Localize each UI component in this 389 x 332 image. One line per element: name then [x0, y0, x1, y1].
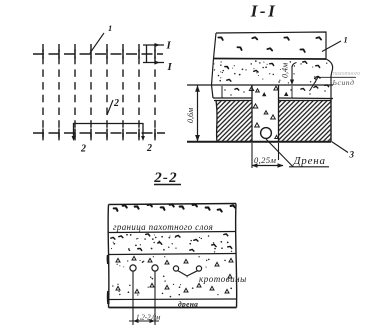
svg-text:дрена: дрена [178, 300, 198, 309]
svg-text:0,4м: 0,4м [281, 63, 290, 78]
svg-text:граница пахотного слоя: граница пахотного слоя [113, 222, 213, 232]
svg-text:2: 2 [80, 144, 86, 155]
svg-text:Ьсипд: Ьсипд [332, 78, 355, 87]
svg-text:1: 1 [344, 35, 348, 45]
svg-text:2: 2 [146, 143, 152, 154]
svg-text:2: 2 [113, 98, 119, 109]
svg-text:1,2-2,0м: 1,2-2,0м [136, 314, 161, 322]
svg-text:3: 3 [349, 150, 355, 160]
svg-text:0,25м: 0,25м [254, 155, 276, 165]
svg-text:I: I [167, 61, 173, 73]
svg-text:кротовины: кротовины [199, 274, 247, 284]
svg-text:I: I [166, 40, 172, 52]
svg-text:1: 1 [108, 23, 112, 33]
svg-text:пахотного: пахотного [333, 71, 360, 77]
svg-text:0,6м: 0,6м [186, 108, 195, 123]
svg-text:2-2: 2-2 [153, 170, 178, 186]
svg-text:I-I: I-I [250, 2, 277, 21]
svg-text:Дрена: Дрена [293, 155, 326, 167]
